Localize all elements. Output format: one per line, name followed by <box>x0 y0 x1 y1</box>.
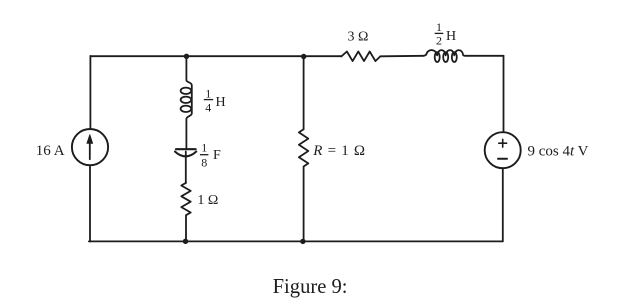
inductor L1 loop 3 <box>181 106 192 112</box>
inductor L2 loop 2 <box>443 52 448 62</box>
voltage source minus sign <box>498 158 507 160</box>
node dot bottom branch2 <box>300 239 305 244</box>
svg-text:3 Ω: 3 Ω <box>348 30 369 45</box>
wire between 3ohm and coil <box>380 55 424 58</box>
node dot top branch2 <box>301 54 306 59</box>
node dot bottom branch1 <box>183 239 188 244</box>
svg-text:H: H <box>446 29 456 44</box>
resistor R2 3ohm horizontal zigzag <box>341 52 380 62</box>
svg-text:4: 4 <box>205 101 211 115</box>
capacitor C1 bottom lead <box>185 152 187 183</box>
resistor R1 1ohm zigzag <box>181 183 190 242</box>
svg-text:9 cos 4t V: 9 cos 4t V <box>528 143 589 159</box>
svg-text:H: H <box>216 95 226 110</box>
wire bottom horizontal <box>89 240 503 242</box>
svg-text:8: 8 <box>201 156 207 170</box>
svg-text:1: 1 <box>205 86 211 100</box>
inductor L2 loop 3 <box>452 52 457 62</box>
svg-text:R = 1 Ω: R = 1 Ω <box>312 143 365 159</box>
inductor L1 loop 2 <box>181 97 192 103</box>
svg-text:1: 1 <box>201 140 207 154</box>
capacitor C1 bottom curved plate <box>175 152 196 157</box>
inductor L2 loop 1 <box>435 52 440 62</box>
current source arrow <box>89 140 91 159</box>
resistor R 1ohm vertical zigzag <box>299 129 308 241</box>
wire right vertical upper <box>503 56 505 132</box>
inductor L2 1/2H humps <box>424 50 504 56</box>
label 1/4 fraction bar <box>204 99 213 101</box>
inductor L1 1/4H lead and spine <box>186 56 191 149</box>
wire top horizontal left section <box>90 55 341 57</box>
svg-text:Figure 9:: Figure 9: <box>273 276 348 298</box>
svg-text:1 Ω: 1 Ω <box>197 193 218 208</box>
wire left vertical lower <box>89 165 91 241</box>
node dot top branch1 <box>184 54 189 59</box>
voltage source plus sign <box>499 139 507 147</box>
svg-text:1: 1 <box>436 20 442 34</box>
wire right vertical lower <box>502 168 504 241</box>
svg-text:2: 2 <box>436 34 442 48</box>
capacitor C1 top plate <box>176 148 196 150</box>
inductor L1 loop 1 <box>181 88 192 94</box>
svg-text:F: F <box>213 148 221 163</box>
label 1/2 fraction bar <box>435 32 444 34</box>
wire left vertical upper <box>89 56 91 129</box>
voltage source V1 circle <box>485 132 521 168</box>
current source I1 circle <box>72 129 108 165</box>
svg-text:16 A: 16 A <box>36 143 65 159</box>
wire branch2 upper <box>303 56 305 129</box>
label 1/8 fraction bar <box>200 154 209 156</box>
